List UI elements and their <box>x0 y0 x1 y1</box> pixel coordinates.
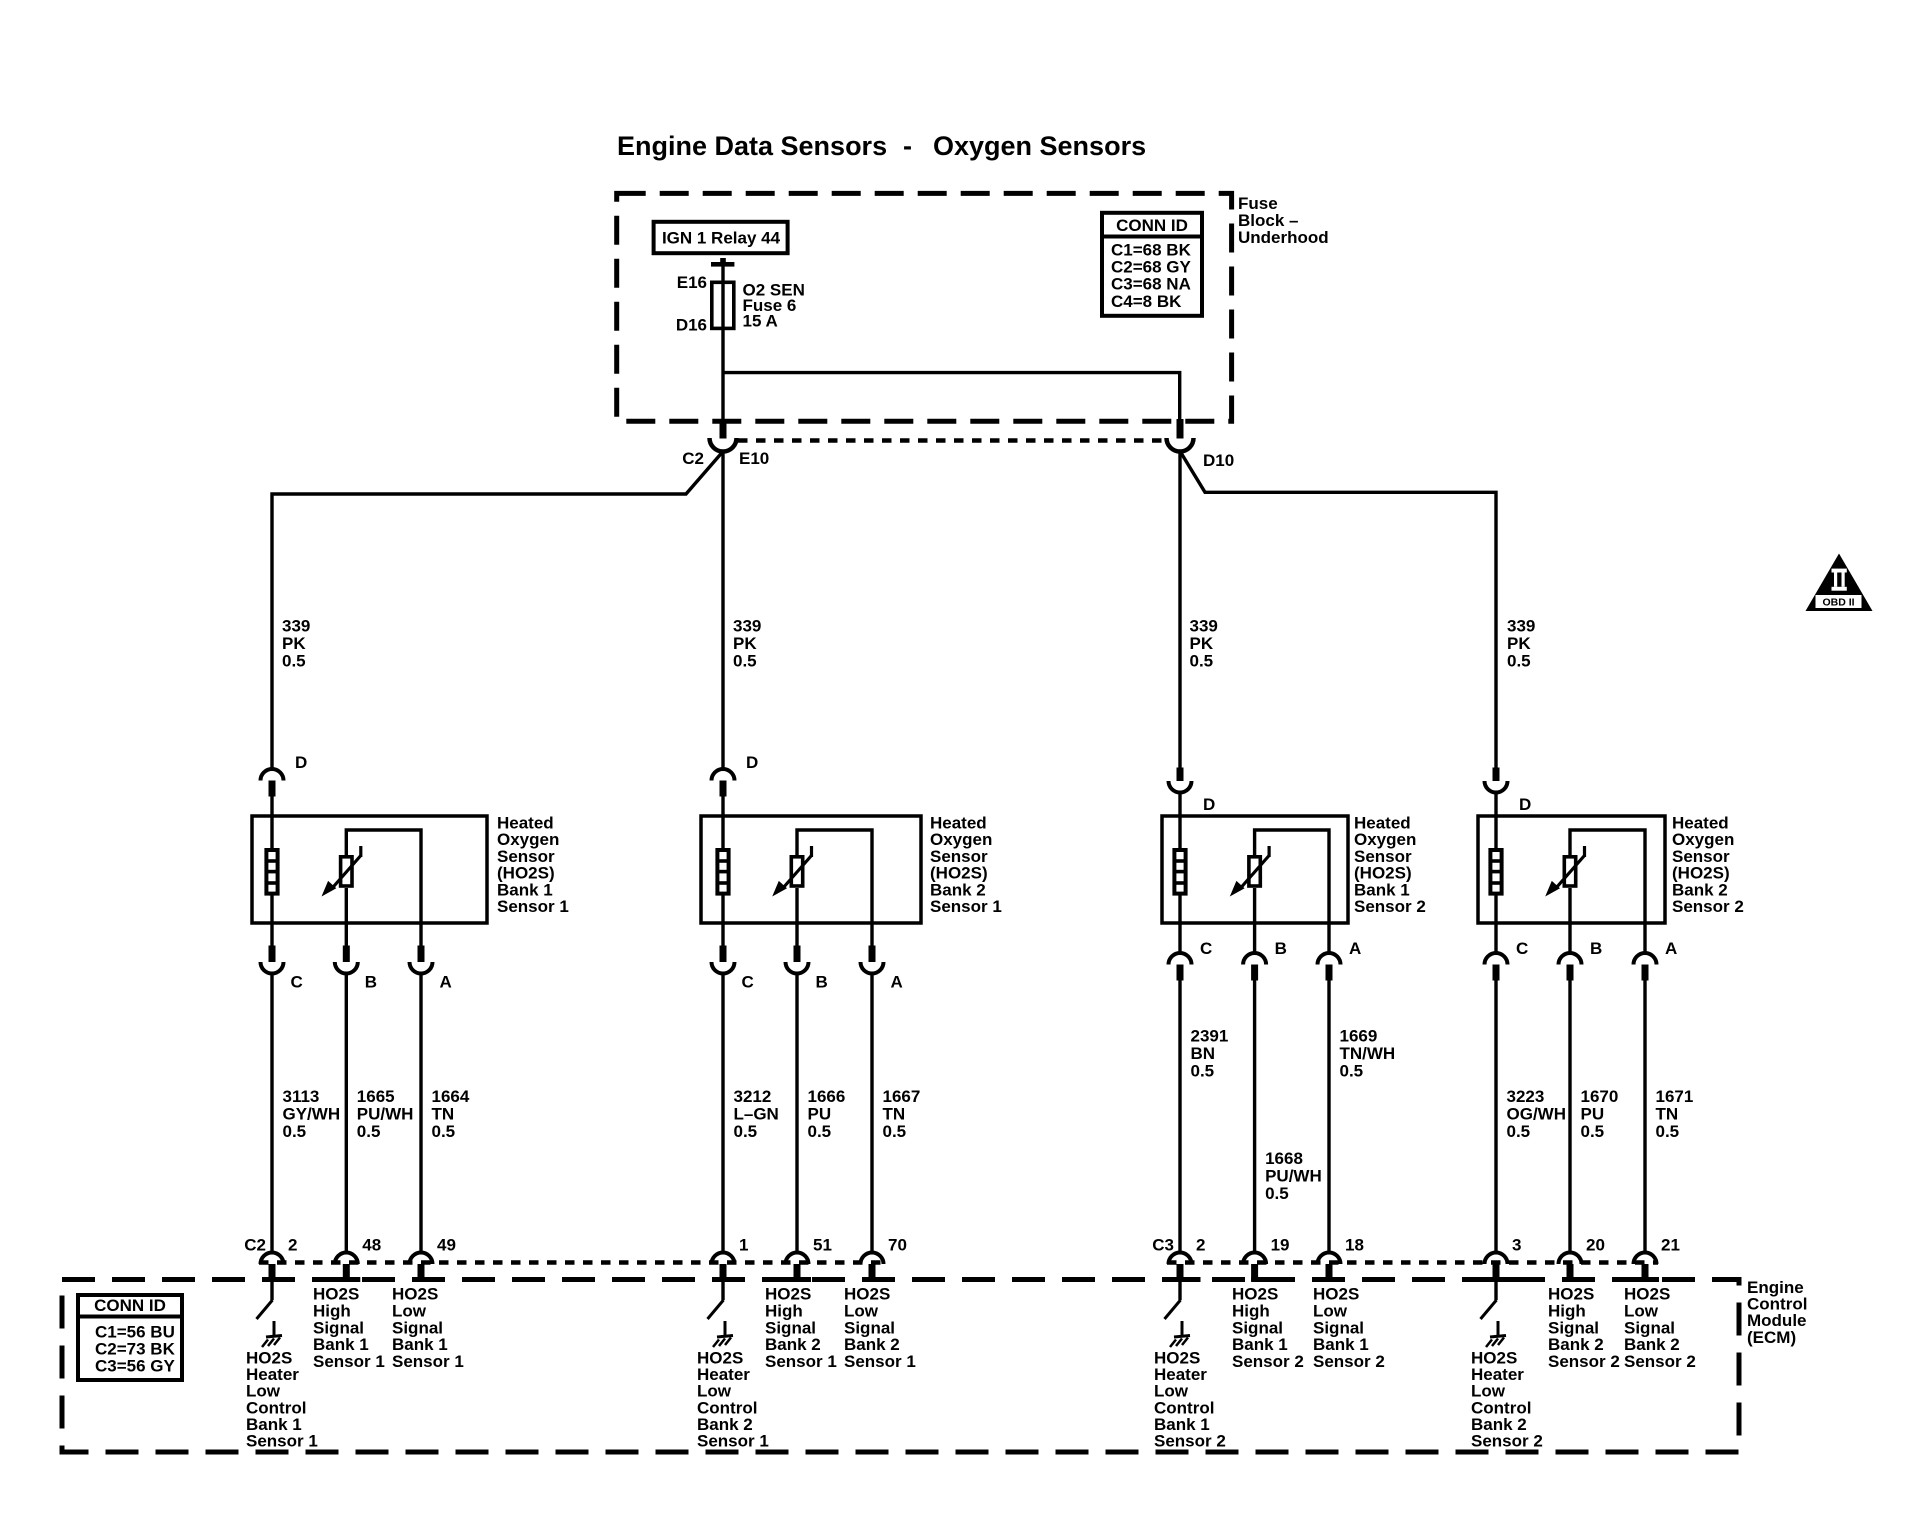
ECM connector pin 1 (Bank 2 Sensor 1) <box>712 1253 735 1265</box>
svg-text:PK: PK <box>1190 634 1214 653</box>
svg-text:C: C <box>1200 939 1212 958</box>
wire signal low Bank 2 Sensor 2 <box>1643 923 1646 954</box>
ECM low-side driver switch for heater Bank 2 Sensor 2 <box>1494 1281 1497 1300</box>
svg-text:C4=8 BK: C4=8 BK <box>1111 292 1182 311</box>
svg-text:0.5: 0.5 <box>1507 652 1531 671</box>
svg-text:49: 49 <box>437 1236 456 1255</box>
wire signal high Bank 2 Sensor 2 <box>1568 888 1571 954</box>
svg-text:Oxygen Sensors: Oxygen Sensors <box>933 131 1146 161</box>
svg-text:CONN ID: CONN ID <box>1116 216 1188 235</box>
wire D pin into sensor Bank 2 Sensor 2 <box>1494 792 1497 849</box>
svg-text:PU: PU <box>808 1104 832 1123</box>
svg-text:B: B <box>1275 939 1287 958</box>
svg-text:A: A <box>1349 939 1361 958</box>
svg-text:Sensor 1: Sensor 1 <box>844 1352 916 1371</box>
svg-text:C2: C2 <box>682 449 704 468</box>
connector D10 socket <box>1167 438 1194 452</box>
relay K: IGN 1 Relay 44 box <box>654 222 788 253</box>
svg-text:70: 70 <box>888 1236 907 1255</box>
svg-text:B: B <box>1590 939 1602 958</box>
svg-text:D: D <box>1203 795 1215 814</box>
svg-text:-: - <box>903 131 912 161</box>
svg-text:0.5: 0.5 <box>808 1122 832 1141</box>
svg-text:D10: D10 <box>1203 451 1234 470</box>
svg-text:C3: C3 <box>1152 1236 1174 1255</box>
svg-text:0.5: 0.5 <box>1340 1061 1364 1080</box>
svg-text:20: 20 <box>1586 1236 1605 1255</box>
svg-text:A: A <box>891 973 903 992</box>
svg-text:TN/WH: TN/WH <box>1340 1044 1396 1063</box>
svg-text:18: 18 <box>1345 1236 1364 1255</box>
svg-text:C2: C2 <box>244 1236 266 1255</box>
internal wire sensing element to pin A Bank 1 Sensor 1 <box>346 830 421 923</box>
internal wire sensing element to pin A Bank 1 Sensor 2 <box>1255 830 1329 923</box>
svg-text:C1=68 BK: C1=68 BK <box>1111 240 1192 259</box>
svg-text:15 A: 15 A <box>743 312 778 331</box>
ECM connector pin 70 (Bank 2 Sensor 1) <box>861 1253 884 1265</box>
connector D of HO2S Bank 1 Sensor 1 (socket over pin) <box>261 769 284 781</box>
pin bar D of HO2S Bank 2 Sensor 2 <box>1493 768 1500 782</box>
connector B of HO2S Bank 1 Sensor 1 (pin into socket) <box>343 946 350 963</box>
svg-text:339: 339 <box>1507 616 1535 635</box>
ground (ECM internal) for heater Bank 2 Sensor 1 <box>724 1321 727 1336</box>
HO2S Bank 1 Sensor 1 sensor box <box>252 816 487 923</box>
svg-text:Sensor 1: Sensor 1 <box>930 897 1002 916</box>
wire E10 branch to HO2S B1S1 <box>272 452 723 769</box>
wire relay to fuse <box>721 267 724 284</box>
wire D pin into sensor Bank 1 Sensor 1 <box>270 797 273 850</box>
pin bar D10 at fuse block edge <box>1177 419 1184 439</box>
svg-text:GY/WH: GY/WH <box>283 1104 341 1123</box>
svg-text:0.5: 0.5 <box>432 1122 456 1141</box>
wire heater low Bank 1 Sensor 1 <box>270 895 273 946</box>
svg-text:A: A <box>440 973 452 992</box>
svg-text:0.5: 0.5 <box>733 652 757 671</box>
svg-text:Sensor 1: Sensor 1 <box>697 1432 769 1451</box>
wire D10 branch to HO2S B2S2 <box>1181 452 1497 768</box>
ECM connector pin 3 (Bank 2 Sensor 2) <box>1485 1253 1508 1265</box>
heater element of HO2S Bank 2 Sensor 1 <box>717 850 728 894</box>
svg-text:1669: 1669 <box>1340 1026 1378 1045</box>
svg-text:D: D <box>746 753 758 772</box>
svg-text:TN: TN <box>883 1104 906 1123</box>
internal wire sensing element to pin A Bank 2 Sensor 2 <box>1570 830 1645 923</box>
svg-text:Sensor 1: Sensor 1 <box>246 1432 318 1451</box>
ECM connector pin 48 (Bank 1 Sensor 1) <box>335 1253 358 1265</box>
wire signal high Bank 1 Sensor 2 <box>1253 888 1256 954</box>
svg-text:2391: 2391 <box>1191 1026 1229 1045</box>
variable arrow of HO2S Bank 2 Sensor 1 <box>810 846 813 857</box>
connector D of HO2S Bank 2 Sensor 2 (pin into socket) <box>1485 781 1508 793</box>
svg-text:0.5: 0.5 <box>283 1122 307 1141</box>
svg-text:51: 51 <box>813 1236 832 1255</box>
svg-text:339: 339 <box>282 616 310 635</box>
pin bar E10 at fuse block edge <box>720 419 727 439</box>
svg-text:Sensor 2: Sensor 2 <box>1154 1432 1226 1451</box>
connector D of HO2S Bank 2 Sensor 1 (socket over pin) <box>712 769 735 781</box>
svg-text:0.5: 0.5 <box>1507 1122 1531 1141</box>
svg-text:19: 19 <box>1271 1236 1290 1255</box>
ECM low-side driver switch for heater Bank 2 Sensor 1 <box>721 1281 724 1300</box>
internal wire sensing element to pin A Bank 2 Sensor 1 <box>797 830 872 923</box>
conn id table of fuse block <box>1102 213 1202 316</box>
wire signal high Bank 2 Sensor 1 <box>795 888 798 946</box>
svg-text:D16: D16 <box>676 316 707 335</box>
wire bus inside fuse block to D10 <box>723 373 1180 421</box>
wire heater low Bank 2 Sensor 1 <box>721 895 724 946</box>
svg-text:0.5: 0.5 <box>1191 1061 1215 1080</box>
wire E10 down to HO2S B2S1 <box>721 452 724 770</box>
wire heater low Bank 1 Sensor 2 <box>1178 895 1181 954</box>
wire B to ECM Bank 2 Sensor 1 <box>795 974 798 1254</box>
Engine Control Module dashed enclosure <box>62 1280 1739 1453</box>
wire D10 down to HO2S B1S2 <box>1178 452 1181 769</box>
svg-text:C: C <box>291 973 303 992</box>
connector A of HO2S Bank 2 Sensor 2 (socket over pin) <box>1634 953 1657 965</box>
connector D of HO2S Bank 1 Sensor 2 (pin into socket) <box>1169 781 1192 793</box>
ground (ECM internal) for heater Bank 1 Sensor 1 <box>273 1321 276 1336</box>
wire signal high Bank 1 Sensor 1 <box>345 888 348 946</box>
wire A to ECM Bank 2 Sensor 1 <box>870 974 873 1254</box>
wire through fuse to junction <box>721 283 724 421</box>
svg-text:C2=68 GY: C2=68 GY <box>1111 258 1192 277</box>
svg-text:1667: 1667 <box>883 1087 921 1106</box>
inline harness dotted line E10-D10 <box>738 438 1166 443</box>
ECM connector pin 18 (Bank 1 Sensor 2) <box>1318 1253 1341 1265</box>
connector E10 socket <box>710 438 737 452</box>
svg-text:Sensor 1: Sensor 1 <box>392 1352 464 1371</box>
ground (ECM internal) for heater Bank 2 Sensor 2 <box>1497 1321 1500 1336</box>
svg-text:3113: 3113 <box>283 1087 320 1106</box>
pin bar D of HO2S Bank 1 Sensor 2 <box>1177 768 1184 782</box>
svg-text:339: 339 <box>733 616 761 635</box>
svg-text:(ECM): (ECM) <box>1747 1328 1796 1347</box>
ECM connector pin 49 (Bank 1 Sensor 1) <box>410 1253 433 1265</box>
connector B of HO2S Bank 2 Sensor 1 (pin into socket) <box>794 946 801 963</box>
ECM connector pin 2 (Bank 1 Sensor 1) <box>261 1253 284 1265</box>
svg-text:Sensor 2: Sensor 2 <box>1354 897 1426 916</box>
svg-text:3212: 3212 <box>734 1087 772 1106</box>
wire B to ECM Bank 1 Sensor 2 <box>1253 981 1256 1254</box>
svg-text:D: D <box>1519 795 1531 814</box>
svg-text:0.5: 0.5 <box>1190 652 1214 671</box>
svg-text:PU/WH: PU/WH <box>1265 1167 1322 1186</box>
svg-text:3: 3 <box>1512 1236 1521 1255</box>
connector C of HO2S Bank 2 Sensor 1 (pin into socket) <box>720 946 727 963</box>
fuse block - underhood dashed enclosure <box>617 193 1232 421</box>
svg-text:0.5: 0.5 <box>734 1122 758 1141</box>
svg-text:1666: 1666 <box>808 1087 846 1106</box>
wire signal low Bank 2 Sensor 1 <box>870 923 873 946</box>
sensing element of HO2S Bank 1 Sensor 2 <box>1249 857 1260 886</box>
svg-text:0.5: 0.5 <box>1581 1122 1605 1141</box>
svg-text:Sensor 2: Sensor 2 <box>1471 1432 1543 1451</box>
svg-text:BN: BN <box>1191 1044 1216 1063</box>
harness dotted line ECM connector C2 <box>259 1260 885 1265</box>
svg-text:0.5: 0.5 <box>1656 1122 1680 1141</box>
HO2S Bank 1 Sensor 2 sensor box <box>1162 816 1348 923</box>
ECM low-side driver switch for heater Bank 1 Sensor 1 <box>270 1281 273 1300</box>
svg-text:Sensor 1: Sensor 1 <box>497 897 569 916</box>
ECM connector pin 2 (Bank 1 Sensor 2) <box>1169 1253 1192 1265</box>
svg-text:Sensor 2: Sensor 2 <box>1313 1352 1385 1371</box>
svg-text:Engine Data Sensors: Engine Data Sensors <box>617 131 887 161</box>
connector C of HO2S Bank 1 Sensor 2 (socket over pin) <box>1169 953 1192 965</box>
wire heater low Bank 2 Sensor 2 <box>1494 895 1497 954</box>
HO2S Bank 2 Sensor 2 sensor box <box>1478 816 1665 923</box>
svg-text:C: C <box>742 973 754 992</box>
svg-text:0.5: 0.5 <box>1265 1184 1289 1203</box>
svg-text:C: C <box>1516 939 1528 958</box>
svg-text:339: 339 <box>1190 616 1218 635</box>
wire A to ECM Bank 2 Sensor 2 <box>1643 981 1646 1254</box>
heater element of HO2S Bank 1 Sensor 2 <box>1174 850 1185 894</box>
wire D pin into sensor Bank 1 Sensor 2 <box>1178 792 1181 849</box>
relay output terminal tick <box>720 258 726 262</box>
svg-text:A: A <box>1665 939 1677 958</box>
svg-text:Sensor 2: Sensor 2 <box>1672 897 1744 916</box>
svg-text:TN: TN <box>432 1104 455 1123</box>
svg-text:PK: PK <box>1507 634 1531 653</box>
svg-text:C3=68 NA: C3=68 NA <box>1111 275 1191 294</box>
svg-text:Sensor 2: Sensor 2 <box>1548 1352 1620 1371</box>
svg-text:OG/WH: OG/WH <box>1507 1104 1567 1123</box>
wire B to ECM Bank 1 Sensor 1 <box>345 974 348 1254</box>
ground (ECM internal) for heater Bank 1 Sensor 2 <box>1181 1321 1184 1336</box>
svg-text:CONN ID: CONN ID <box>94 1296 166 1315</box>
svg-text:21: 21 <box>1661 1236 1680 1255</box>
svg-text:Sensor 2: Sensor 2 <box>1624 1352 1696 1371</box>
wire C to ECM Bank 1 Sensor 1 <box>270 974 273 1254</box>
svg-text:1664: 1664 <box>432 1087 470 1106</box>
connector C of HO2S Bank 2 Sensor 2 (socket over pin) <box>1485 953 1508 965</box>
heater element of HO2S Bank 1 Sensor 1 <box>266 850 277 894</box>
connector A of HO2S Bank 1 Sensor 1 (pin into socket) <box>418 946 425 963</box>
svg-text:1671: 1671 <box>1656 1087 1694 1106</box>
wire B to ECM Bank 2 Sensor 2 <box>1568 981 1571 1254</box>
svg-text:0.5: 0.5 <box>357 1122 381 1141</box>
HO2S Bank 2 Sensor 1 sensor box <box>701 816 921 923</box>
svg-text:0.5: 0.5 <box>282 652 306 671</box>
svg-text:1668: 1668 <box>1265 1149 1303 1168</box>
wire A to ECM Bank 1 Sensor 2 <box>1327 981 1330 1254</box>
svg-text:PU: PU <box>1581 1104 1605 1123</box>
svg-text:C3=56 GY: C3=56 GY <box>95 1357 176 1376</box>
svg-text:IGN 1 Relay 44: IGN 1 Relay 44 <box>662 229 781 248</box>
svg-text:PK: PK <box>733 634 757 653</box>
ECM connector pin 51 (Bank 2 Sensor 1) <box>786 1253 809 1265</box>
variable arrow of HO2S Bank 1 Sensor 2 <box>1267 846 1270 857</box>
ECM connector pin 21 (Bank 2 Sensor 2) <box>1634 1253 1657 1265</box>
svg-text:48: 48 <box>362 1236 381 1255</box>
svg-text:Underhood: Underhood <box>1238 228 1329 247</box>
svg-text:E16: E16 <box>677 273 707 292</box>
svg-text:PK: PK <box>282 634 306 653</box>
svg-text:1665: 1665 <box>357 1087 395 1106</box>
svg-text:E10: E10 <box>739 449 769 468</box>
sensing element of HO2S Bank 1 Sensor 1 <box>341 857 352 886</box>
connector B of HO2S Bank 2 Sensor 2 (socket over pin) <box>1559 953 1582 965</box>
wire D pin into sensor Bank 2 Sensor 1 <box>721 797 724 850</box>
harness dotted line ECM connector C3 <box>1167 1260 1658 1265</box>
variable arrow of HO2S Bank 2 Sensor 2 <box>1583 846 1586 857</box>
svg-text:3223: 3223 <box>1507 1087 1545 1106</box>
svg-text:Sensor 1: Sensor 1 <box>313 1352 385 1371</box>
conn id table of ECM <box>78 1295 182 1380</box>
svg-text:D: D <box>295 753 307 772</box>
wire signal low Bank 1 Sensor 2 <box>1327 923 1330 954</box>
wire C to ECM Bank 2 Sensor 1 <box>721 974 724 1254</box>
wire A to ECM Bank 1 Sensor 1 <box>419 974 422 1254</box>
wire signal low Bank 1 Sensor 1 <box>419 923 422 946</box>
OBD II marker triangle <box>1806 554 1873 612</box>
svg-text:B: B <box>365 973 377 992</box>
svg-text:Sensor 2: Sensor 2 <box>1232 1352 1304 1371</box>
svg-text:B: B <box>816 973 828 992</box>
svg-text:2: 2 <box>1196 1236 1205 1255</box>
wire C to ECM Bank 2 Sensor 2 <box>1494 981 1497 1254</box>
heater element of HO2S Bank 2 Sensor 2 <box>1490 850 1501 894</box>
wire C to ECM Bank 1 Sensor 2 <box>1178 981 1181 1254</box>
sensing element of HO2S Bank 2 Sensor 2 <box>1564 857 1575 886</box>
sensing element of HO2S Bank 2 Sensor 1 <box>791 857 802 886</box>
connector A of HO2S Bank 1 Sensor 2 (socket over pin) <box>1318 953 1341 965</box>
ECM connector pin 20 (Bank 2 Sensor 2) <box>1559 1253 1582 1265</box>
ECM low-side driver switch for heater Bank 1 Sensor 2 <box>1178 1281 1181 1300</box>
connector C of HO2S Bank 1 Sensor 1 (pin into socket) <box>269 946 276 963</box>
connector B of HO2S Bank 1 Sensor 2 (socket over pin) <box>1243 953 1266 965</box>
svg-text:1670: 1670 <box>1581 1087 1619 1106</box>
svg-text:Sensor 1: Sensor 1 <box>765 1352 837 1371</box>
svg-text:2: 2 <box>288 1236 297 1255</box>
svg-text:1: 1 <box>739 1236 748 1255</box>
variable arrow of HO2S Bank 1 Sensor 1 <box>359 846 362 857</box>
svg-text:OBD II: OBD II <box>1822 597 1854 609</box>
svg-text:0.5: 0.5 <box>883 1122 907 1141</box>
fuse F6: O2 SEN Fuse 6 15A <box>712 282 734 328</box>
svg-text:PU/WH: PU/WH <box>357 1104 414 1123</box>
svg-text:TN: TN <box>1656 1104 1679 1123</box>
svg-text:L–GN: L–GN <box>734 1104 779 1123</box>
ECM connector pin 19 (Bank 1 Sensor 2) <box>1243 1253 1266 1265</box>
connector A of HO2S Bank 2 Sensor 1 (pin into socket) <box>869 946 876 963</box>
